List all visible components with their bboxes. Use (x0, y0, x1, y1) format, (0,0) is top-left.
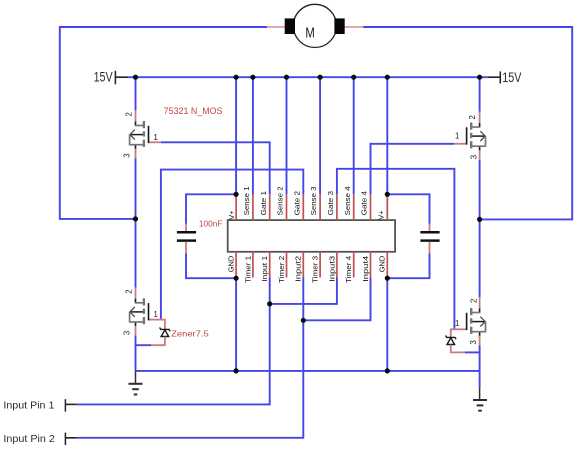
svg-text:Gate 1: Gate 1 (259, 191, 268, 216)
svg-text:M: M (305, 25, 314, 41)
junction: C2 bottom / GND right (385, 276, 390, 281)
junction: rail / V+ right (385, 75, 390, 80)
wire: GND right pin to bottom rail (386, 278, 388, 371)
zener diode D1 symbol (160, 328, 171, 337)
supply 15V right tick (499, 71, 501, 83)
junction: Input 1 / Input 3 branch (267, 301, 272, 306)
transistor Q4 (lower right, mirrored) (454, 297, 485, 345)
wire: bottom ground rail (136, 370, 480, 372)
motor M1 pin stub left (267, 26, 285, 28)
IC X1 top pin labels (227, 186, 385, 219)
transistor Q1 (75321 N_MOS upper left) (130, 110, 161, 158)
svg-text:Timer 2: Timer 2 (277, 256, 286, 283)
zener diode D2 (right) jog from gate node (451, 329, 455, 337)
svg-text:Timer 4: Timer 4 (344, 256, 353, 283)
svg-text:3: 3 (469, 340, 478, 344)
IC X1 pin stubs bottom (236, 252, 387, 278)
input terminal 2 stub (65, 437, 76, 439)
svg-text:15V: 15V (502, 70, 521, 85)
wire: Q3 source to bottom rail (135, 336, 137, 371)
junction: right bridge midpoint (477, 217, 482, 222)
input terminal 1 stub (65, 403, 76, 405)
svg-text:Input2: Input2 (294, 256, 303, 282)
supply 15V left tick (114, 71, 116, 85)
svg-text:3: 3 (123, 153, 132, 157)
ground symbol right (479, 371, 481, 388)
svg-text:2: 2 (125, 289, 134, 293)
svg-text:GND: GND (378, 256, 387, 272)
svg-text:3: 3 (123, 331, 132, 335)
svg-text:V+: V+ (376, 211, 385, 220)
wire: motor left loop (top-left corner down to left bridge midpoint) (60, 27, 267, 219)
svg-text:V+: V+ (227, 211, 236, 220)
junction: rail / Q2 drain (477, 75, 482, 80)
supply 15V left stub (115, 76, 128, 78)
capacitor C2 top lead (387, 194, 429, 224)
junction: rail / Sense 2 (284, 75, 289, 80)
zener diode D2 bottom lead (451, 345, 466, 353)
svg-text:Timer 1: Timer 1 (243, 256, 252, 283)
svg-text:Input3: Input3 (327, 256, 336, 282)
junction: left bridge midpoint (133, 216, 138, 221)
svg-text:1: 1 (455, 132, 459, 141)
capacitor C1 plates (177, 231, 196, 234)
svg-text:Input Pin 1: Input Pin 1 (3, 401, 54, 412)
wire: GND left pin to bottom rail (235, 278, 237, 371)
wire: Q1 drain from rail (135, 77, 137, 110)
junction: bottom rail / GND left (234, 368, 239, 373)
svg-text:100nF: 100nF (199, 218, 223, 228)
motor M1 brush left (285, 18, 295, 34)
svg-text:Sense 3: Sense 3 (309, 186, 318, 215)
wire: Q4 source to bottom rail (479, 345, 481, 371)
wire: Input 2 net (pin to Input Pin 2 terminal) (77, 278, 303, 438)
svg-text:Gate 4: Gate 4 (360, 191, 369, 216)
wire: right bridge midpoint (Q2 source to Q4 drain) (479, 160, 481, 298)
junction: rail / Sense 4 (351, 75, 356, 80)
capacitor C2 plates (420, 231, 439, 234)
wire: V+ right pin to rail (386, 77, 388, 194)
IC X1 bottom pin labels (227, 256, 387, 283)
IC X1 body (228, 220, 395, 252)
capacitor C2 bottom lead (429, 242, 431, 254)
svg-text:Input Pin 2: Input Pin 2 (3, 434, 55, 445)
svg-text:75321 N_MOS: 75321 N_MOS (164, 106, 223, 116)
svg-text:Gate 3: Gate 3 (326, 191, 335, 216)
wire: D1 to Q3 source (135, 344, 151, 346)
wire: Gate 1 pin to Q1 gate (161, 142, 270, 194)
svg-text:Input 1: Input 1 (260, 256, 269, 282)
svg-text:1: 1 (154, 133, 158, 142)
svg-text:Sense 4: Sense 4 (343, 186, 352, 215)
wire: Gate 4 pin to Q2 gate (371, 144, 455, 194)
svg-text:2: 2 (470, 299, 479, 303)
wire: left bridge midpoint (Q1 source to Q3 drain) (135, 158, 137, 287)
capacitor C1 top lead (186, 194, 236, 224)
svg-text:Gate 2: Gate 2 (292, 191, 301, 216)
svg-text:Timer 3: Timer 3 (311, 256, 320, 283)
input terminal 1 tick (64, 399, 66, 411)
motor M1 pin stub right (344, 26, 363, 28)
motor M1 body circle (293, 4, 336, 47)
wire: 15V rail (128, 76, 488, 78)
svg-text:Sense 1: Sense 1 (242, 186, 251, 215)
wire: Sense 4 pin to rail (353, 77, 355, 194)
junction: rail / Sense 3 (318, 75, 323, 80)
transistor Q2 (upper right, mirrored) (454, 112, 485, 160)
supply 15V right stub (488, 76, 501, 78)
IC X1 pin stubs top (236, 194, 387, 220)
zener diode D1 (left) jog from gate node (160, 320, 165, 330)
transistor Q3 (lower left) (130, 288, 161, 336)
junction: rail / Sense 1 (250, 75, 255, 80)
zener diode D1 bottom lead (150, 337, 165, 346)
wire: Sense 1 pin to rail (252, 77, 254, 194)
wire: V+ left pin to rail (235, 77, 237, 194)
junction: C1 bottom / GND left (234, 276, 239, 281)
ground symbol left (135, 371, 137, 383)
wire: motor right loop (to top-right corner down to right bridge midpoint) (363, 27, 572, 219)
svg-text:15V: 15V (94, 70, 113, 85)
wire: Input 4 pin branch to Input 2 (303, 278, 370, 321)
wire: Sense 2 pin to rail (286, 77, 288, 194)
svg-text:1: 1 (154, 310, 158, 319)
svg-text:Zener7.5: Zener7.5 (171, 328, 209, 338)
junction: C1 top / V+ left (234, 192, 239, 197)
svg-text:1: 1 (455, 319, 459, 328)
wire: Input 3 pin branch to Input 1 (270, 278, 337, 304)
svg-text:Sense 2: Sense 2 (276, 186, 285, 215)
wire: D2 to Q4 source (465, 351, 481, 353)
wire: Gate 2 pin to Q3 gate (161, 170, 303, 320)
wire: Gate 3 pin to Q4 gate (337, 169, 455, 329)
svg-text:Input4: Input4 (361, 256, 370, 282)
svg-text:2: 2 (468, 115, 477, 119)
svg-text:2: 2 (125, 112, 134, 116)
wire: Sense 3 pin to rail (319, 77, 321, 194)
motor M1 brush right (334, 18, 344, 34)
svg-text:3: 3 (469, 155, 478, 159)
junction: Input 2 / Input 4 branch (301, 318, 306, 323)
wire: Input 1 net (pin to Input Pin 1 terminal) (77, 278, 270, 405)
svg-text:GND: GND (227, 256, 236, 272)
junction: C2 top / V+ right (385, 192, 390, 197)
wire: Q2 drain from rail (479, 77, 481, 112)
zener diode D2 symbol (446, 336, 457, 345)
input terminal 2 tick (64, 433, 66, 445)
junction: bottom rail / GND right (385, 368, 390, 373)
capacitor C1 bottom lead (185, 242, 187, 254)
junction: rail / Q1 drain (133, 75, 138, 80)
junction: rail / V+ left (234, 75, 239, 80)
